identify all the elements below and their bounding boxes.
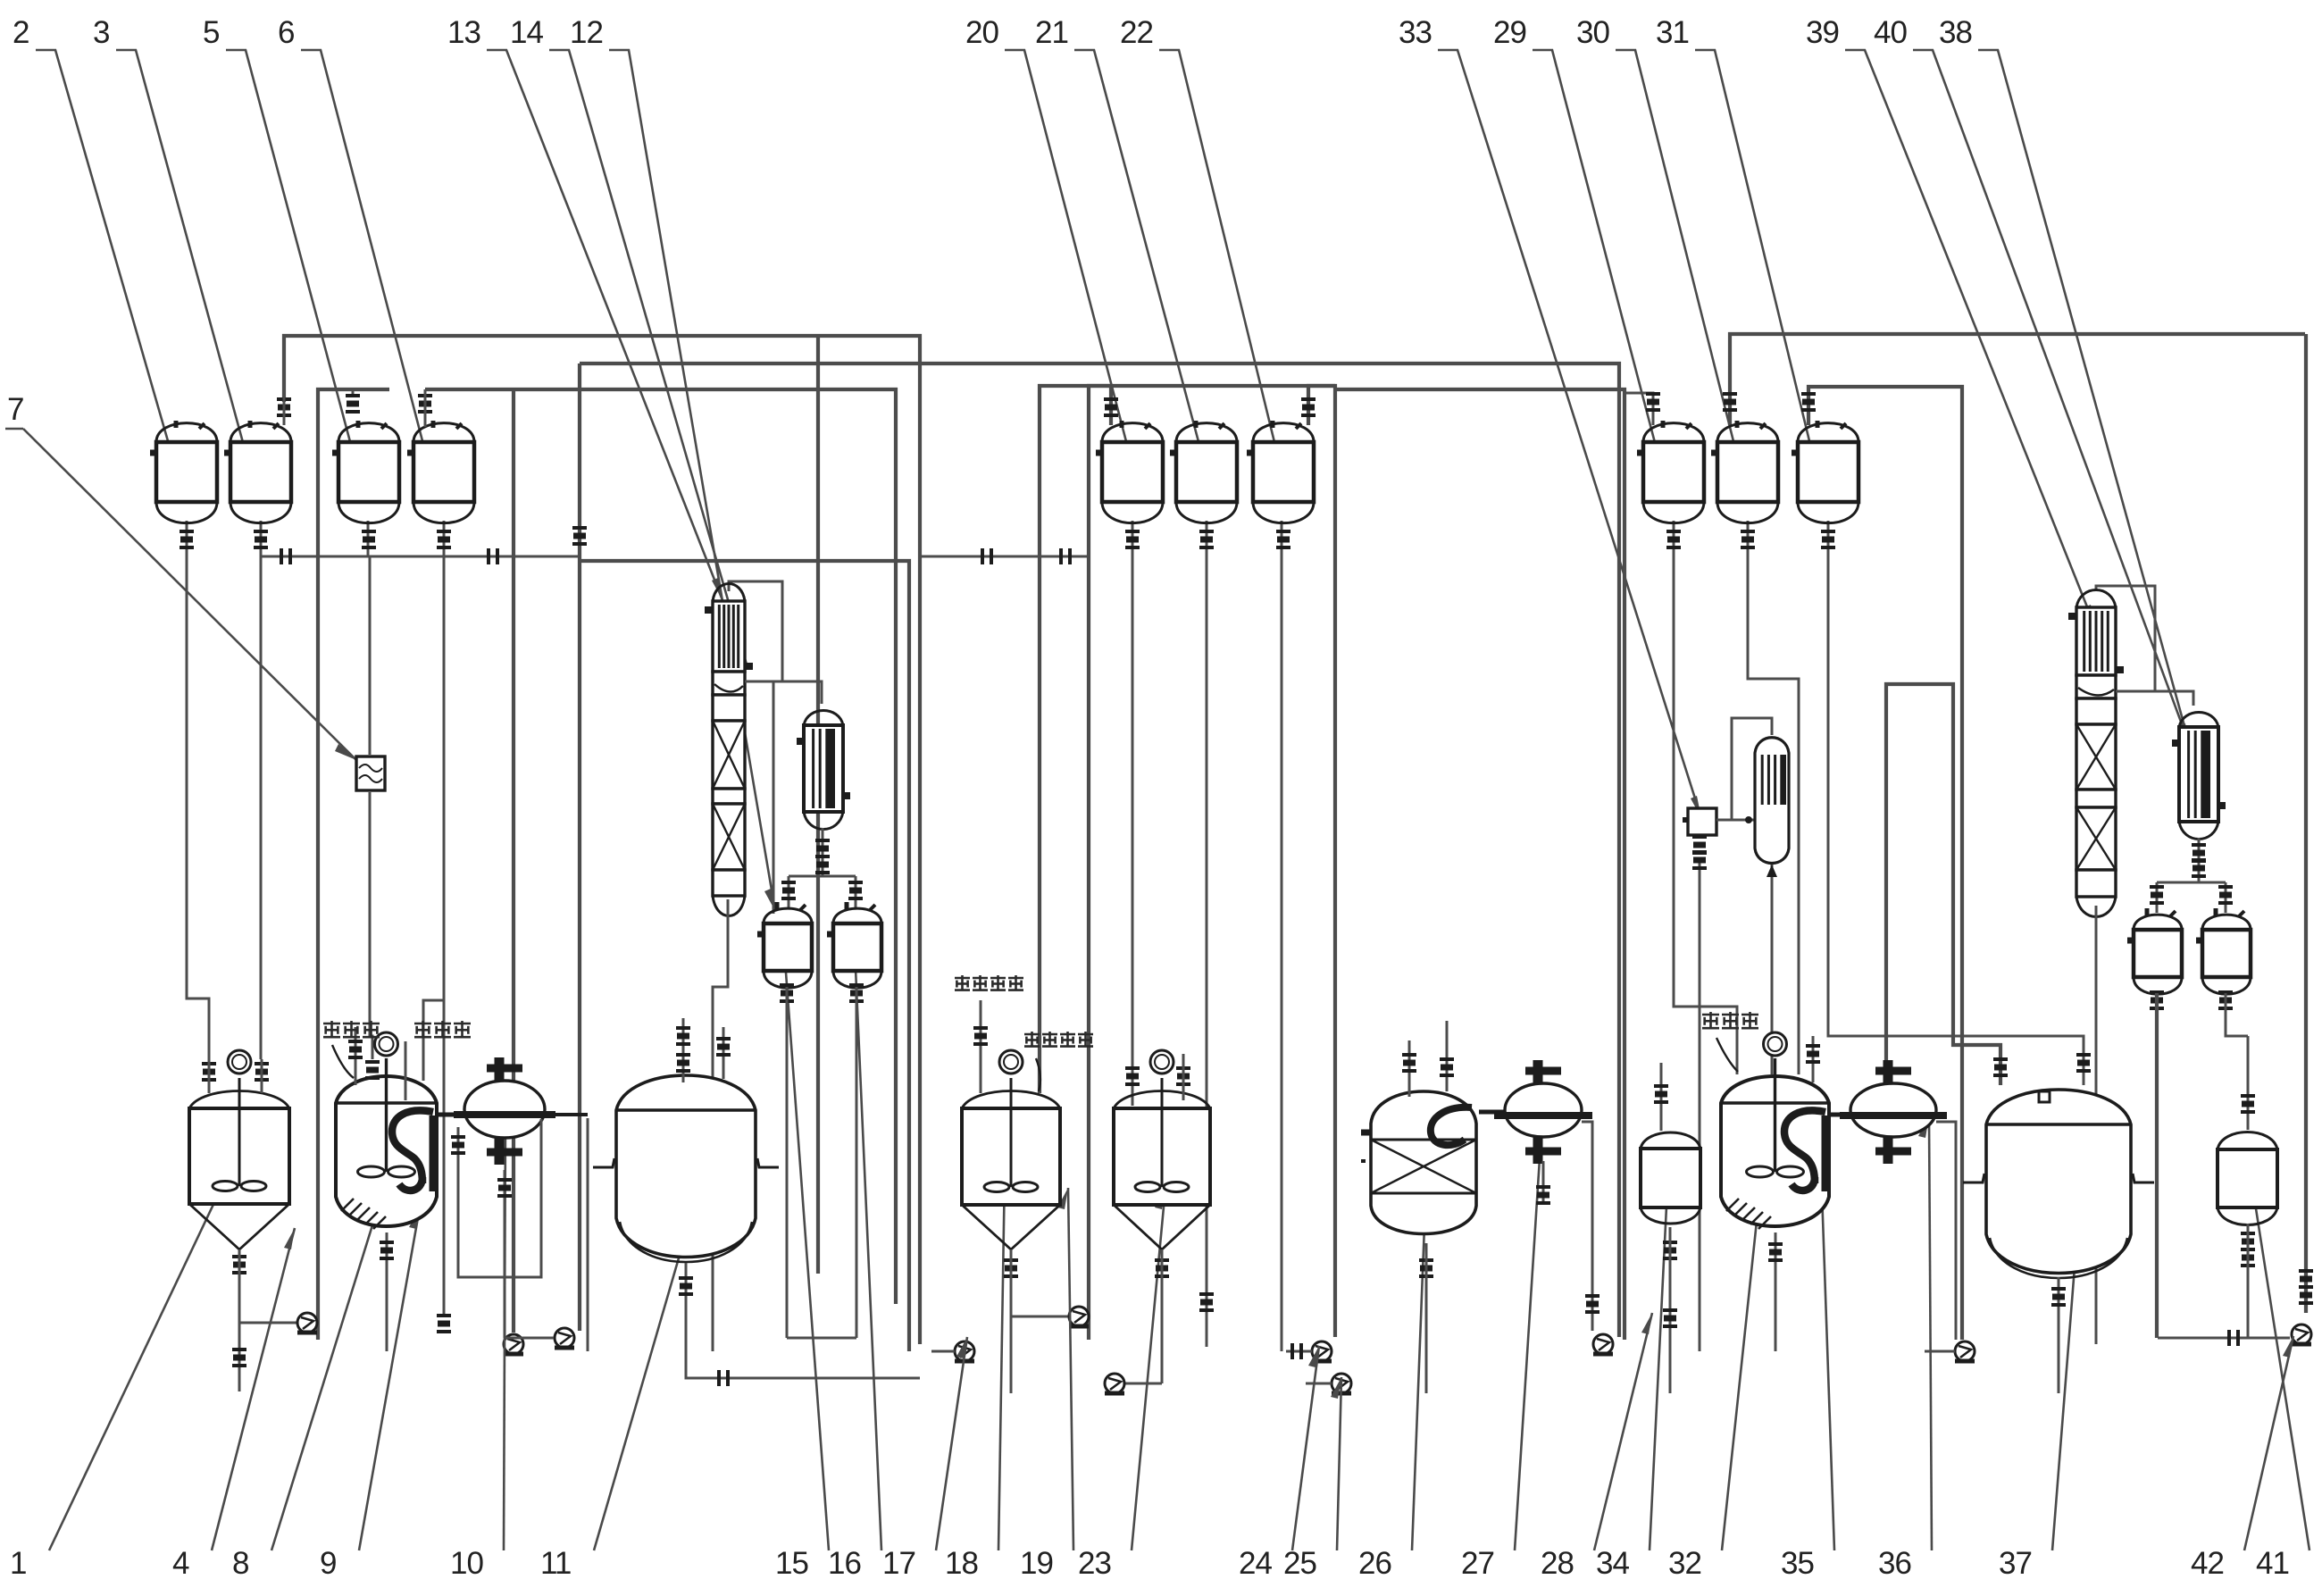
reactor 8 nozzle a — [355, 1027, 357, 1085]
receiver 16 outlet — [849, 985, 864, 1001]
svg-text:36: 36 — [1878, 1546, 1911, 1581]
reactor 8 right nozzle — [423, 1000, 444, 1081]
svg-text:25: 25 — [1283, 1546, 1316, 1581]
pump P3 — [504, 1334, 523, 1354]
wire mid manifold y623 — [920, 556, 1089, 558]
tank 6 outlet valve — [437, 531, 451, 547]
tank 31 outlet valve — [1821, 531, 1835, 547]
tank 2 outlet valve — [180, 531, 194, 547]
reactor 1 right nozzle valve — [255, 1064, 269, 1080]
svg-text:34: 34 — [1596, 1546, 1629, 1581]
pump P6 — [1069, 1307, 1089, 1326]
reactor 23 — [1114, 1078, 1210, 1249]
svg-text:32: 32 — [1668, 1546, 1701, 1581]
wire column area drop x866 — [773, 681, 775, 914]
tank 41 — [2218, 1132, 2277, 1225]
wire reactor18 drain to pump — [1011, 1316, 1068, 1318]
svg-text:26: 26 — [1358, 1546, 1391, 1581]
wire tank6 top stub — [424, 389, 427, 397]
svg-text:24: 24 — [1239, 1546, 1272, 1581]
wire reactor32 to separator36 — [1829, 1113, 1850, 1117]
column 39 — [2076, 590, 2116, 917]
reactor 32 right stem — [1812, 1036, 1815, 1082]
tank 2 — [150, 421, 217, 523]
tank 34 bottom valve — [1663, 1242, 1677, 1258]
tank 20 top valve — [1104, 399, 1118, 415]
flame arrestor 13 — [356, 756, 385, 790]
tank 30 top valve — [1723, 394, 1737, 410]
column 12 — [713, 584, 745, 916]
reactor 23 bottom valve — [1155, 1260, 1169, 1276]
svg-text:16: 16 — [828, 1546, 861, 1581]
tank 21 — [1170, 421, 1237, 523]
svg-text:19: 19 — [1020, 1546, 1053, 1581]
svg-text:21: 21 — [1035, 15, 1068, 50]
separator 10 drain loop — [458, 1119, 541, 1277]
wire header L1 y371 — [284, 336, 920, 1344]
pump P5 — [955, 1341, 974, 1361]
reactor 37 — [1963, 1090, 2154, 1278]
wire tank22 drop — [1281, 521, 1283, 1351]
condenser 14 — [804, 711, 843, 830]
wire tank2 feed drop — [187, 521, 209, 1059]
wire frame x1495 — [1308, 386, 1335, 1337]
wire tank29 stub — [1625, 393, 1653, 425]
separator 27 bottom valves — [1542, 1161, 1545, 1201]
tank 34 — [1641, 1132, 1700, 1224]
receiver 40a outlet — [2150, 992, 2164, 1008]
reactor 11 top valve a — [682, 1018, 685, 1082]
tank 6 — [407, 421, 474, 523]
reactor 26 top stems — [1408, 1040, 1411, 1097]
reactor 8 nitrogen dip — [405, 1041, 407, 1100]
svg-text:6: 6 — [278, 15, 294, 50]
reactor 37 stem b — [2076, 1055, 2091, 1071]
reactor 18 bottom valve — [1004, 1260, 1018, 1276]
svg-text:31: 31 — [1656, 15, 1689, 50]
tank 3 — [224, 421, 291, 523]
receiver 15 — [757, 902, 812, 988]
wire branch x916 — [816, 336, 820, 1274]
wire right header y433 — [1808, 387, 1962, 1340]
separator 10 right outlet — [545, 1113, 588, 1116]
pump P12 — [2292, 1324, 2311, 1344]
reactor 37 dome fitting — [2039, 1091, 2050, 1102]
wire tank5 top stub — [352, 389, 355, 397]
wire sep36 drain drop — [1936, 1122, 1956, 1340]
svg-text:5: 5 — [203, 15, 219, 50]
wire frame x1219 — [1089, 386, 1111, 1340]
tank 30 outlet valve — [1741, 531, 1755, 547]
svg-text:29: 29 — [1493, 15, 1526, 50]
column 12 condenser overhead pipe — [729, 581, 782, 681]
svg-text:8: 8 — [232, 1546, 248, 1581]
wire header L4 y403 — [580, 363, 1619, 1337]
pump P8 — [1312, 1341, 1332, 1361]
reactor 8 — [336, 1058, 437, 1229]
svg-text:10: 10 — [450, 1546, 483, 1581]
reactor 26 — [1361, 1091, 1476, 1234]
tank 22 — [1247, 421, 1314, 523]
svg-text:37: 37 — [1999, 1546, 2032, 1581]
pump P4 — [555, 1328, 574, 1348]
separator 10 bottom drop — [504, 1170, 506, 1286]
pump P11 — [1955, 1341, 1975, 1361]
receiver 15 outlet — [780, 985, 794, 1001]
tank 21 outlet valve — [1199, 531, 1214, 547]
column 12 bottoms — [713, 899, 728, 1351]
wire tank30 drop — [1748, 521, 1799, 1074]
receiver 40a — [2127, 908, 2182, 994]
reactor 1 left nozzle valve — [202, 1064, 216, 1080]
wire sep10 drain — [587, 1118, 589, 1351]
dryer box 33 — [1688, 808, 1716, 835]
reactor 8 nozzle valve b — [365, 1062, 380, 1078]
svg-text:38: 38 — [1939, 15, 1972, 50]
svg-text:1: 1 — [10, 1546, 26, 1581]
pump P8b — [1332, 1374, 1351, 1393]
wire header y432 to x1819 — [1335, 389, 1625, 1340]
label nitrogen text — [414, 1021, 431, 1038]
tank 20 outlet valve — [1125, 531, 1140, 547]
receiver fork — [789, 875, 856, 878]
wire tank20 drop — [1132, 521, 1134, 1106]
tank 22 outlet valve — [1276, 531, 1290, 547]
tank 34 top stem — [1660, 1063, 1663, 1131]
receiver 16 — [827, 902, 881, 988]
reactor 18 — [962, 1078, 1060, 1249]
svg-text:22: 22 — [1120, 15, 1153, 50]
svg-text:27: 27 — [1461, 1546, 1494, 1581]
svg-text:15: 15 — [775, 1546, 808, 1581]
svg-text:2: 2 — [13, 15, 29, 50]
reactor 1 — [189, 1078, 289, 1249]
wire branch x1018 — [580, 561, 909, 1351]
pump P7 — [1105, 1374, 1124, 1393]
wire bottom right run — [2158, 1337, 2290, 1340]
svg-text:42: 42 — [2191, 1546, 2224, 1581]
wire manifold under tanks y623 — [261, 556, 580, 558]
wire branch x575 — [512, 389, 515, 1333]
tank 30 — [1711, 421, 1778, 523]
reactor 32 cooling text — [1702, 1012, 1719, 1029]
brine pointer arc — [1036, 1058, 1040, 1091]
brine text — [1024, 1032, 1040, 1047]
hx14 outlet — [822, 828, 824, 876]
tank 3 outlet valve — [254, 531, 268, 547]
wire from H4 to unit 33 — [1699, 863, 1701, 1351]
reactor 11 — [593, 1075, 779, 1262]
wire x2582 to pump — [2304, 334, 2308, 1313]
svg-text:3: 3 — [93, 15, 109, 50]
receiver 40b outlet — [2218, 992, 2233, 1008]
column 12 reflux line — [745, 681, 822, 704]
wire tank3 drop to reactor1 — [260, 521, 263, 1059]
svg-text:11: 11 — [540, 1546, 571, 1581]
tank 2 top valve — [277, 399, 291, 415]
tank 41 feed — [2247, 1036, 2250, 1130]
svg-text:17: 17 — [882, 1546, 915, 1581]
wire reactor23 drain — [1125, 1383, 1162, 1385]
svg-text:4: 4 — [172, 1546, 189, 1581]
wire right header y374 — [1730, 334, 2305, 425]
reactor 11 bottom outlet — [685, 1263, 688, 1282]
cooling water pointer arc — [332, 1045, 354, 1078]
reactor 23 top valves — [1125, 1068, 1140, 1084]
reactor 32 bottom outlet — [1775, 1233, 1777, 1351]
water feed text — [955, 975, 970, 990]
pump P2 — [297, 1313, 317, 1333]
reactor 32 — [1721, 1058, 1829, 1229]
hx38 outlet — [2198, 838, 2201, 882]
svg-text:13: 13 — [447, 15, 480, 50]
wire header L2 y429 — [318, 389, 389, 1340]
label cooling water text — [323, 1021, 340, 1038]
svg-text:20: 20 — [965, 15, 998, 50]
wire tank21 drop — [1206, 521, 1208, 1347]
reactor 8 bottom outlet — [386, 1233, 388, 1351]
wire sep27 drain drop — [1582, 1122, 1592, 1331]
separator 33 bottom line — [1771, 865, 1774, 1074]
wire riser x649 — [578, 363, 581, 1331]
tank 29 top valve — [1646, 394, 1660, 410]
svg-text:9: 9 — [320, 1546, 336, 1581]
reactor 26 bottom valve — [1419, 1260, 1433, 1276]
separator 10 inlet from reactor 8 — [437, 1113, 464, 1117]
svg-text:14: 14 — [510, 15, 543, 50]
tank 20 — [1096, 421, 1163, 523]
wire tank31 drop — [1828, 521, 2084, 1085]
wire drop below reactor1 — [238, 1291, 241, 1391]
svg-text:39: 39 — [1806, 15, 1839, 50]
tank 6 top valve — [418, 396, 432, 412]
tank 5 top valve — [346, 396, 360, 412]
tank 29 outlet valve — [1666, 531, 1681, 547]
right receiver fork — [2157, 882, 2226, 884]
svg-text:18: 18 — [945, 1546, 978, 1581]
tank 5 — [332, 421, 399, 523]
separator 27 — [1494, 1060, 1592, 1164]
svg-text:40: 40 — [1874, 15, 1907, 50]
wire tank29 drop — [1674, 521, 1737, 1074]
pump P9 — [1593, 1334, 1613, 1354]
water feed pipe — [980, 1000, 982, 1093]
wire reactor11 bottom run — [686, 1277, 920, 1378]
wire box33 to separator33 — [1716, 819, 1755, 822]
reactor 1 bottom valve — [232, 1257, 246, 1273]
reactor 37 bottom outlet — [2058, 1277, 2060, 1393]
tank 29 — [1637, 421, 1704, 523]
wire box13 outlet to reactor8 — [370, 792, 372, 1059]
wire reactor26 to separator27 — [1479, 1110, 1505, 1115]
svg-text:12: 12 — [570, 15, 603, 50]
tank 5 outlet valve — [362, 531, 376, 547]
tank 31 top valve — [1801, 394, 1816, 410]
separator 36 — [1840, 1060, 1947, 1164]
wire tank5 drop to box13 — [367, 521, 370, 556]
wire reactor1 bottom branch — [239, 1322, 297, 1324]
separator 10 — [454, 1057, 555, 1165]
condenser 38 — [2179, 713, 2218, 840]
svg-text:41: 41 — [2256, 1546, 2289, 1581]
tank 41 bottom valve — [2241, 1233, 2255, 1249]
tank 22 top valve — [1301, 399, 1316, 415]
separator 33 — [1755, 738, 1789, 864]
reactor 11 top valve b — [722, 1027, 725, 1079]
receiver 40b — [2196, 908, 2251, 994]
svg-text:23: 23 — [1078, 1546, 1111, 1581]
separator 33 loop — [1732, 718, 1772, 820]
wire mid header y432 right part — [1040, 386, 1335, 1093]
column 39 reflux line — [2116, 691, 2193, 706]
wire tank6 drop — [443, 521, 446, 556]
column 39 bottoms — [2095, 906, 2098, 1344]
svg-text:35: 35 — [1781, 1546, 1814, 1581]
column 39 overhead pipe — [2096, 586, 2155, 691]
tank 31 — [1792, 421, 1858, 523]
svg-text:33: 33 — [1399, 15, 1432, 50]
reactor 32 pointer arc — [1716, 1038, 1738, 1072]
svg-text:7: 7 — [7, 392, 23, 427]
svg-text:28: 28 — [1541, 1546, 1574, 1581]
wire frame x2112/x2187 — [1886, 684, 2000, 1085]
svg-text:30: 30 — [1576, 15, 1609, 50]
reactor 37 stem a — [1993, 1059, 2008, 1075]
